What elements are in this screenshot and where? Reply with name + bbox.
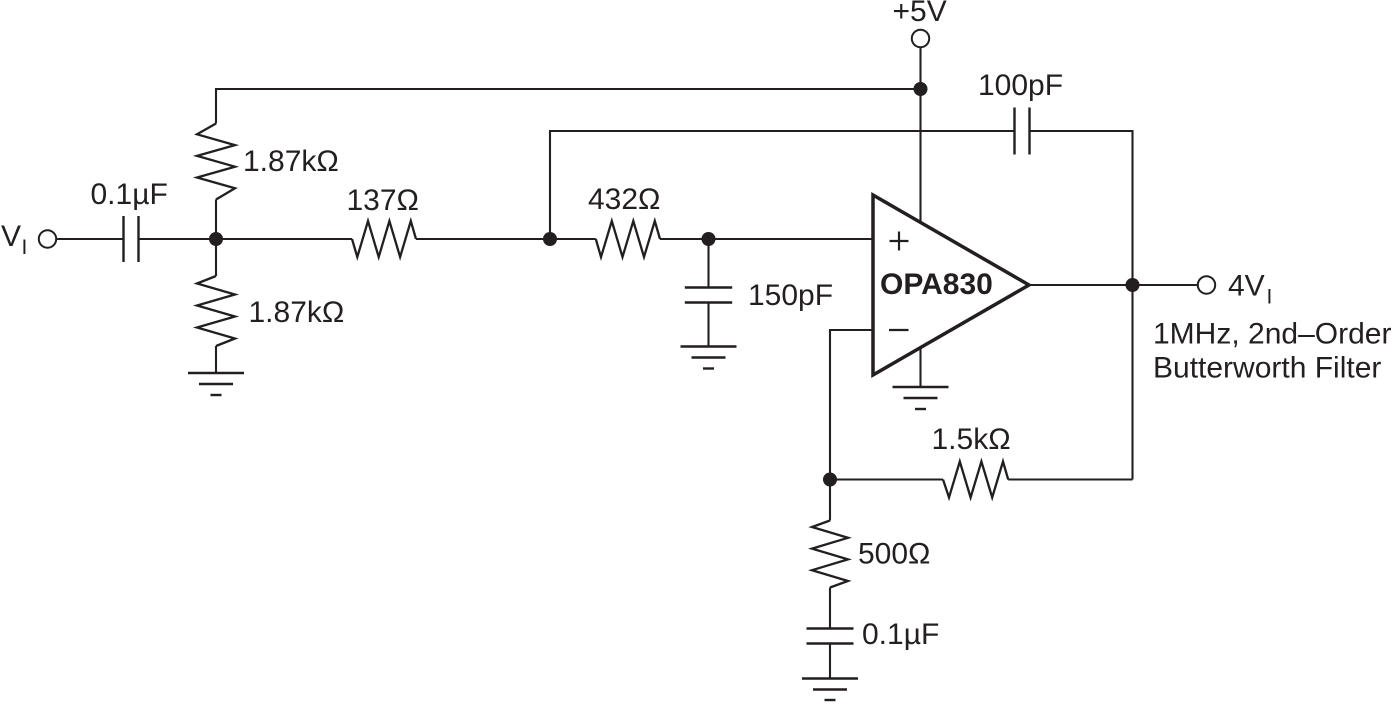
svg-text:1.87kΩ: 1.87kΩ <box>243 145 339 178</box>
ground under C4 <box>802 679 858 701</box>
svg-text:V: V <box>1 220 21 253</box>
node B junction dot <box>543 232 557 246</box>
top rail wire from R1 corner to +5V node <box>216 89 921 124</box>
+5V terminal circle <box>912 30 929 47</box>
wire C2 to ground <box>707 303 709 347</box>
node F feedback junction dot <box>823 473 837 487</box>
wire C4 to ground <box>829 644 831 679</box>
wire C3 to output node column <box>1030 131 1133 480</box>
op-amp U1 triangle <box>873 195 1029 375</box>
svg-text:1.5kΩ: 1.5kΩ <box>932 423 1011 456</box>
svg-text:0.1µF: 0.1µF <box>91 178 168 211</box>
resistor R5 1.5k feedback <box>943 462 1008 498</box>
node D supply junction dot <box>914 82 928 96</box>
svg-text:I: I <box>1267 286 1273 309</box>
node A junction dot <box>209 232 223 246</box>
capacitor C2 150pF lead from node C <box>707 239 709 288</box>
svg-text:4V: 4V <box>1228 270 1265 303</box>
svg-text:137Ω: 137Ω <box>347 184 419 217</box>
svg-text:I: I <box>22 236 28 259</box>
wire C1 to R2 (through node A) <box>139 238 353 240</box>
wire op-amp output to output terminal <box>1029 284 1198 286</box>
wire op-amp minus input to feedback node F <box>830 330 873 480</box>
op-amp U1 minus input marker <box>889 329 909 331</box>
wire R1 to node A to R3 <box>215 200 217 277</box>
resistor R3 1.87k (lower bias) <box>197 276 235 346</box>
svg-text:500Ω: 500Ω <box>858 538 930 571</box>
ground under R3 <box>188 373 244 395</box>
capacitor C2 150pF plates <box>685 288 732 303</box>
node C junction dot <box>702 232 716 246</box>
wire R6 to C4 <box>829 588 831 629</box>
output terminal circle <box>1198 276 1215 293</box>
input terminal circle <box>39 230 56 247</box>
wire R3 to ground <box>215 346 217 373</box>
wire node B up to 100pF feedback rail <box>550 131 1015 239</box>
wire op-amp negative supply pin to ground <box>919 348 921 387</box>
resistor R2 137 ohm <box>352 221 416 257</box>
svg-text:+5V: +5V <box>893 0 947 28</box>
resistor R1 1.87k (upper bias) <box>197 124 235 200</box>
node V_I input label <box>1 220 27 259</box>
capacitor C1 0.1uF plates <box>124 216 139 262</box>
wire node F down to R6 <box>829 480 831 521</box>
op-amp U1 plus input marker <box>890 232 909 251</box>
svg-text:432Ω: 432Ω <box>588 183 660 216</box>
wire R4 to op-amp + input (through node C) <box>660 238 873 240</box>
svg-text:Butterworth Filter: Butterworth Filter <box>1153 352 1381 385</box>
node 4V_I output label <box>1228 270 1272 309</box>
svg-text:1MHz, 2nd–Order: 1MHz, 2nd–Order <box>1153 318 1391 351</box>
svg-text:1.87kΩ: 1.87kΩ <box>249 296 345 329</box>
node E output junction dot <box>1126 278 1140 292</box>
svg-text:150pF: 150pF <box>748 279 833 312</box>
capacitor C3 100pF plates <box>1015 108 1030 155</box>
capacitor C4 0.1uF plates <box>807 629 854 644</box>
resistor R4 432 ohm <box>596 221 660 257</box>
resistor R6 500 ohm <box>812 521 848 588</box>
svg-text:100pF: 100pF <box>978 69 1063 102</box>
ground under op-amp U1 <box>893 387 949 409</box>
svg-text:0.1µF: 0.1µF <box>862 618 939 651</box>
wire R2 to R4 (through node B) <box>416 238 596 240</box>
wire R5 to output column <box>1008 478 1132 480</box>
wire node F to R5 <box>830 478 943 480</box>
wire +5V terminal down to op-amp supply pin <box>919 47 921 222</box>
ground under C2 <box>681 347 737 369</box>
svg-text:OPA830: OPA830 <box>880 268 993 301</box>
wire input terminal to C1 <box>57 238 124 240</box>
